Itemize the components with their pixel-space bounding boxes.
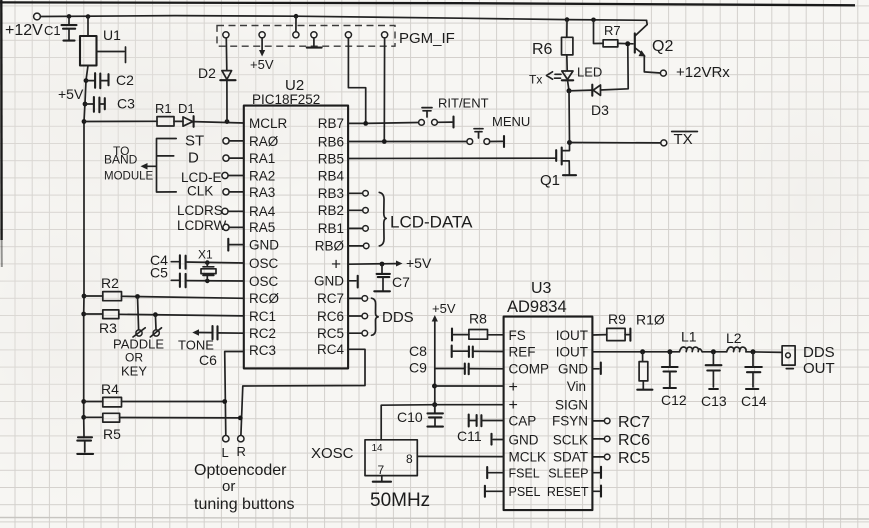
U3 GND right stub <box>592 363 600 374</box>
junction Q2 base <box>625 41 630 46</box>
resistor R7 <box>594 20 634 47</box>
svg-text:+5V: +5V <box>58 86 84 102</box>
svg-text:SCLK: SCLK <box>553 432 588 447</box>
U2 pin labels left <box>249 116 288 358</box>
svg-text:OUT: OUT <box>803 360 835 377</box>
svg-text:PSEL: PSEL <box>509 485 541 499</box>
svg-text:D1: D1 <box>178 101 195 116</box>
svg-text:7: 7 <box>378 463 385 477</box>
svg-text:X1: X1 <box>198 248 213 262</box>
svg-text:C3: C3 <box>117 96 135 112</box>
svg-text:TX: TX <box>674 131 693 148</box>
svg-text:L2: L2 <box>726 330 742 346</box>
PGM pin 1 <box>223 32 229 38</box>
svg-text:MCLR: MCLR <box>249 116 288 131</box>
junction R6 top <box>565 17 570 22</box>
node LCDRW RA5 <box>177 218 244 233</box>
svg-text:MENU: MENU <box>492 114 530 129</box>
svg-text:D: D <box>188 150 199 167</box>
wire RB6 row <box>348 139 467 144</box>
label Tx emission arrows <box>529 72 561 87</box>
svg-text:+: + <box>509 397 518 414</box>
svg-text:D2: D2 <box>198 65 216 81</box>
brace DDS <box>372 298 414 335</box>
junction TX node <box>567 140 572 145</box>
svg-text:MODULE: MODULE <box>104 171 154 183</box>
svg-text:GND: GND <box>558 362 588 377</box>
svg-text:IOUT: IOUT <box>556 345 588 360</box>
svg-text:ST: ST <box>185 133 204 150</box>
svg-text:D3: D3 <box>591 102 609 118</box>
U3 pin labels left <box>509 328 550 499</box>
inductor L1 <box>679 329 702 352</box>
capacitor C2 <box>86 72 134 88</box>
crystal X1 <box>198 248 216 281</box>
node RB1 <box>348 226 368 232</box>
svg-text:R4: R4 <box>101 381 119 397</box>
capacitor C4 <box>150 252 244 269</box>
node CLK RA3 <box>187 184 244 199</box>
node +12V input terminal <box>5 13 43 39</box>
svg-text:PIC18F252: PIC18F252 <box>252 92 320 107</box>
wire RB7 row <box>348 121 418 126</box>
PGM pin 6 <box>382 32 388 142</box>
svg-text:RC3: RC3 <box>249 343 276 358</box>
svg-text:RC6: RC6 <box>618 432 650 449</box>
node RC6 <box>348 313 368 319</box>
svg-text:+: + <box>509 379 518 396</box>
diode D1 <box>178 101 195 127</box>
resistor R9 <box>592 311 630 341</box>
junction C3 <box>83 102 88 107</box>
wire U2 plus to +5V <box>348 255 432 271</box>
resistor R2 <box>82 275 244 301</box>
capacitor C14 <box>741 349 767 409</box>
svg-text:or: or <box>222 478 235 495</box>
junction D2 MCLR <box>225 119 230 124</box>
svg-text:RA4: RA4 <box>249 204 276 219</box>
svg-text:C9: C9 <box>409 360 427 376</box>
svg-text:C5: C5 <box>150 265 168 281</box>
svg-text:C1: C1 <box>44 23 61 38</box>
wire TX row <box>570 142 661 144</box>
svg-text:C8: C8 <box>409 343 427 359</box>
U3 pin labels right <box>547 328 589 499</box>
svg-text:tuning buttons: tuning buttons <box>194 496 295 513</box>
svg-text:CAP: CAP <box>509 413 537 428</box>
svg-text:C11: C11 <box>457 428 482 444</box>
node D RA1 <box>188 150 244 167</box>
capacitor C12 <box>661 349 687 408</box>
svg-text:50MHz: 50MHz <box>370 490 430 511</box>
svg-text:C12: C12 <box>661 392 687 408</box>
wire RC4 to encoder R <box>241 349 365 435</box>
svg-text:KEY: KEY <box>121 364 147 379</box>
label PADDLE OR KEY <box>113 337 164 379</box>
PGM pin 2 <box>250 32 274 72</box>
svg-text:RC2: RC2 <box>249 326 276 341</box>
U2 pin labels right <box>314 116 344 357</box>
svg-text:Q2: Q2 <box>652 38 673 55</box>
IC U2 PIC18F252 body <box>244 77 348 368</box>
svg-text:OSC: OSC <box>249 256 279 271</box>
svg-text:+5V: +5V <box>406 255 432 271</box>
U2 GND left stub <box>228 239 244 251</box>
capacitor C9 <box>409 360 504 376</box>
svg-text:RC7: RC7 <box>618 414 650 431</box>
capacitor C5 <box>150 265 244 288</box>
PGM pin 5 <box>345 32 365 124</box>
junction PGM pin3 rail <box>294 14 299 19</box>
capacitor C1 <box>44 16 77 40</box>
svg-text:RAØ: RAØ <box>249 134 279 149</box>
svg-text:R1: R1 <box>155 101 172 116</box>
svg-text:C7: C7 <box>392 274 410 290</box>
svg-text:CLK: CLK <box>187 184 213 199</box>
wire MCLR row <box>84 121 244 123</box>
svg-text:PADDLE: PADDLE <box>113 337 164 352</box>
svg-text:+: + <box>331 255 341 274</box>
U3 RESET stub <box>592 486 601 497</box>
junction OSC1 <box>205 260 210 265</box>
capacitor C10 <box>397 405 443 427</box>
svg-text:TONE: TONE <box>178 338 214 353</box>
capacitor C11 <box>457 415 504 444</box>
node RC5 SDAT <box>592 450 650 467</box>
svg-text:PGM_IF: PGM_IF <box>399 30 455 47</box>
svg-text:C10: C10 <box>397 409 423 425</box>
wire +5V rail U3 <box>432 301 456 413</box>
U3 SLEEP stub <box>592 467 601 478</box>
wire left +5V rail <box>84 66 88 437</box>
svg-text:GND: GND <box>249 237 279 252</box>
svg-text:C2: C2 <box>116 72 134 88</box>
U3 FSEL stub <box>487 467 503 478</box>
voltage regulator U1 <box>80 17 126 66</box>
svg-text:FS: FS <box>509 328 526 343</box>
svg-text:R3: R3 <box>99 320 117 336</box>
node RB3 <box>348 191 368 197</box>
svg-text:RA1: RA1 <box>249 151 275 166</box>
junction MCLR row <box>82 119 87 124</box>
junction R7 top <box>591 18 596 23</box>
junction C1 top <box>67 14 72 19</box>
capacitor C3 <box>85 96 135 113</box>
capacitor C7 <box>374 264 410 291</box>
svg-text:DDS: DDS <box>803 344 835 361</box>
svg-text:LED: LED <box>577 65 602 80</box>
resistor R8 <box>452 311 504 341</box>
svg-text:RB5: RB5 <box>318 151 344 166</box>
svg-text:+5V: +5V <box>432 301 456 316</box>
svg-text:LCD-DATA: LCD-DATA <box>390 213 473 232</box>
paper bottom edge line <box>0 518 869 520</box>
paddle contact R RC1 <box>150 312 161 337</box>
resistor R3 <box>81 310 244 336</box>
svg-text:+12V: +12V <box>5 22 43 39</box>
svg-text:Q1: Q1 <box>540 172 560 189</box>
node LCDRS RA4 <box>177 203 244 218</box>
paddle contact L RC0 <box>133 294 145 337</box>
U3 GND left stub <box>492 434 504 445</box>
bracket TO BAND MODULE <box>104 139 176 193</box>
svg-text:RC4: RC4 <box>317 342 344 357</box>
capacitor ground bottom left <box>77 437 93 454</box>
svg-text:R6: R6 <box>532 41 553 58</box>
resistor R5 <box>81 413 242 442</box>
junction OSC2 <box>205 279 210 284</box>
LED <box>562 65 602 91</box>
svg-text:AD9834: AD9834 <box>507 298 567 316</box>
pushbutton MENU <box>467 114 530 147</box>
svg-text:SLEEP: SLEEP <box>548 466 588 480</box>
svg-text:RESET: RESET <box>547 485 589 499</box>
junction C2 <box>84 78 89 83</box>
svg-text:8: 8 <box>406 452 413 466</box>
svg-text:C6: C6 <box>199 352 217 368</box>
wire RC3 to encoder L <box>225 352 244 436</box>
inductor L2 <box>726 330 746 352</box>
transistor Q1 MOSFET <box>540 143 576 190</box>
svg-text:MCLK: MCLK <box>509 449 547 464</box>
node RC7 FSYN <box>592 414 650 431</box>
svg-text:LCDRS: LCDRS <box>177 203 223 218</box>
svg-text:XOSC: XOSC <box>311 445 354 462</box>
connector PGM_IF dashed box <box>217 26 455 48</box>
svg-text:R: R <box>237 444 246 459</box>
svg-text:RB3: RB3 <box>318 186 344 201</box>
svg-text:+5V: +5V <box>250 57 274 72</box>
svg-text:RCØ: RCØ <box>249 291 279 306</box>
svg-text:Optoencoder: Optoencoder <box>194 462 287 479</box>
pushbutton RIT/ENT <box>419 96 489 128</box>
wire RB5 row to Q1 gate <box>348 157 556 159</box>
IC U3 AD9834 body <box>504 280 593 510</box>
svg-text:RB1: RB1 <box>318 221 344 236</box>
XOSC pin7 ground <box>373 476 391 482</box>
svg-text:RB7: RB7 <box>318 116 344 131</box>
svg-text:R5: R5 <box>103 426 121 442</box>
svg-text:RA5: RA5 <box>249 220 275 235</box>
svg-text:14: 14 <box>372 443 384 454</box>
svg-text:FSYN: FSYN <box>552 414 588 429</box>
brace LCD-DATA <box>379 192 473 246</box>
connector DDS OUT <box>782 344 835 377</box>
svg-text:RB2: RB2 <box>318 203 344 218</box>
node +12VRX terminal <box>660 64 730 81</box>
wire +12V top rail <box>41 16 647 21</box>
svg-text:COMP: COMP <box>509 362 550 377</box>
svg-text:LCDRW: LCDRW <box>177 218 227 233</box>
transistor Q2 <box>635 20 674 73</box>
svg-text:Vin: Vin <box>567 379 586 394</box>
node RC7 <box>348 296 368 302</box>
svg-text:RA3: RA3 <box>249 185 275 200</box>
svg-text:RIT/ENT: RIT/ENT <box>438 96 489 111</box>
svg-text:L1: L1 <box>681 329 697 345</box>
oscillator XOSC 50MHz <box>311 440 430 511</box>
node TX terminal <box>661 131 698 148</box>
wire IOUT2 output row <box>592 351 782 354</box>
resistor R4 <box>81 381 227 407</box>
svg-text:DDS: DDS <box>382 309 414 326</box>
wire XOSC pin8 to MCLK <box>417 455 503 457</box>
paper top border edge <box>0 2 855 5</box>
svg-text:C13: C13 <box>701 393 727 409</box>
PGM pin 3 <box>293 16 299 38</box>
svg-text:+12VRx: +12VRx <box>676 64 730 81</box>
svg-text:R7: R7 <box>604 23 621 38</box>
svg-text:GND: GND <box>509 432 539 447</box>
svg-text:SIGN: SIGN <box>555 397 588 412</box>
paper left border edge <box>0 0 3 240</box>
svg-text:RC1: RC1 <box>249 309 276 324</box>
svg-text:RA2: RA2 <box>249 168 275 183</box>
U3 PSEL stub <box>485 486 504 497</box>
junction LED D3 <box>567 88 572 93</box>
capacitor C8 <box>409 343 504 359</box>
svg-text:U3: U3 <box>531 280 552 297</box>
svg-text:BAND: BAND <box>104 153 138 167</box>
svg-text:OR: OR <box>125 351 143 365</box>
svg-text:Tx: Tx <box>529 73 542 87</box>
svg-text:IOUT: IOUT <box>556 328 588 343</box>
svg-text:SDAT: SDAT <box>553 450 588 465</box>
wire LED junction down to TX <box>568 91 571 143</box>
encoder terminal L <box>222 436 230 461</box>
encoder terminal R <box>237 436 246 460</box>
diode D2 <box>198 38 236 121</box>
svg-text:RC5: RC5 <box>618 450 650 467</box>
svg-text:R9: R9 <box>608 311 626 327</box>
svg-text:L: L <box>222 445 229 460</box>
junction U1 top <box>86 14 91 19</box>
svg-text:R1Ø: R1Ø <box>636 312 665 328</box>
svg-text:GND: GND <box>314 274 344 289</box>
svg-text:RC6: RC6 <box>317 309 344 324</box>
svg-text:R2: R2 <box>101 275 119 291</box>
resistor R1 <box>155 101 174 126</box>
svg-text:C14: C14 <box>741 393 767 409</box>
wire U3 plus pin 1 <box>432 384 504 389</box>
svg-text:RB6: RB6 <box>318 134 344 149</box>
PGM pin 4 with ground <box>307 32 322 48</box>
svg-text:FSEL: FSEL <box>509 466 540 480</box>
wire U3 plus pin 2 and to XOSC supply <box>381 402 503 440</box>
svg-text:U1: U1 <box>103 27 121 43</box>
svg-text:OSC: OSC <box>249 274 279 289</box>
node RB0 <box>348 243 369 249</box>
node RC5 <box>348 330 368 336</box>
svg-text:RB4: RB4 <box>318 168 345 183</box>
capacitor C13 <box>701 349 727 409</box>
svg-text:RBØ: RBØ <box>315 239 345 254</box>
svg-text:R8: R8 <box>469 311 487 327</box>
svg-text:RC7: RC7 <box>317 291 344 306</box>
resistor R6 <box>532 20 573 71</box>
node RC6 SCLK <box>592 432 650 449</box>
diode D3 <box>569 47 628 119</box>
resistor R10 load <box>637 349 652 389</box>
label Optoencoder <box>194 462 295 513</box>
capacitor C6 TONE <box>178 326 244 368</box>
svg-text:REF: REF <box>509 344 536 359</box>
node RB2 <box>348 208 368 214</box>
node ST RA0 <box>185 133 244 150</box>
U2 GND right stub <box>348 276 358 288</box>
svg-text:RC5: RC5 <box>317 326 344 341</box>
node LCD-E RA2 <box>181 170 244 185</box>
